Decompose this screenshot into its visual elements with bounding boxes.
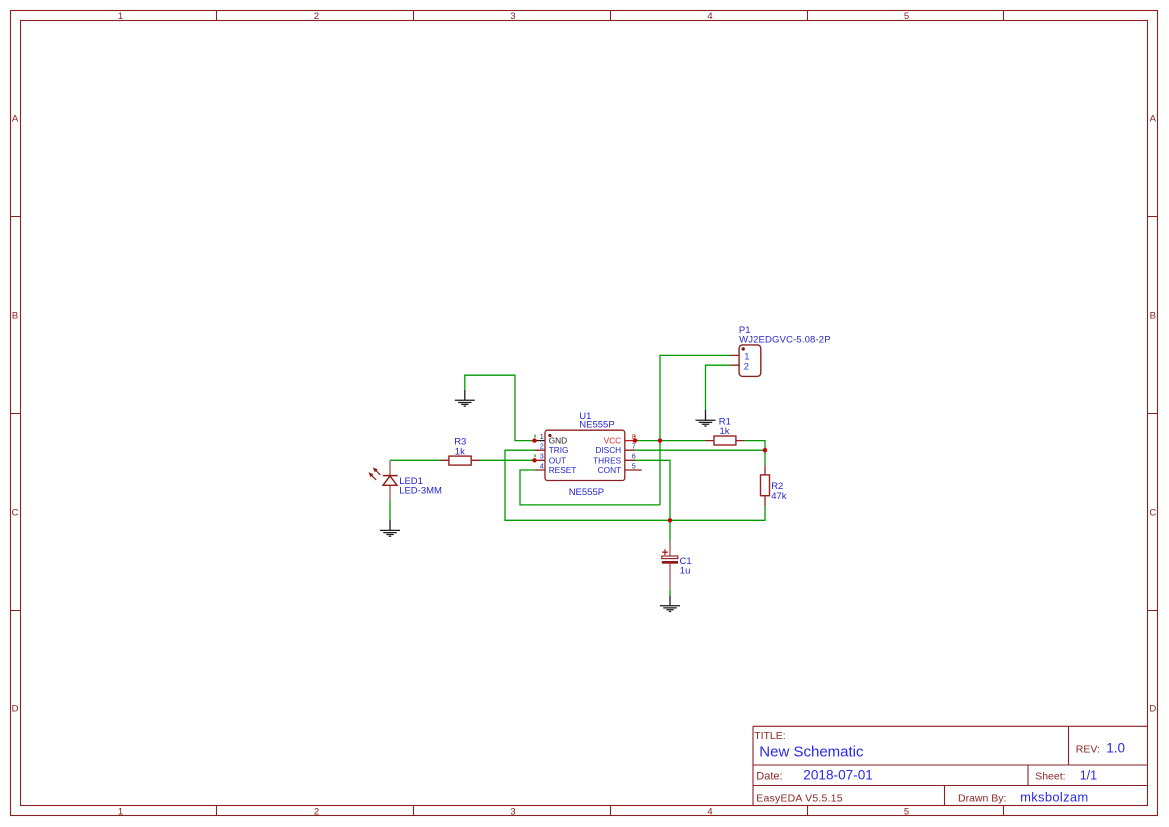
svg-text:1: 1: [118, 11, 123, 22]
svg-text:2: 2: [744, 361, 749, 372]
svg-text:7: 7: [632, 442, 636, 451]
svg-text:5: 5: [632, 461, 636, 470]
svg-text:4: 4: [540, 461, 544, 470]
svg-text:1.0: 1.0: [1106, 740, 1125, 755]
svg-text:A: A: [12, 114, 19, 125]
svg-text:1k: 1k: [720, 426, 730, 437]
svg-text:2: 2: [314, 807, 319, 818]
svg-text:Date:: Date:: [756, 770, 782, 782]
svg-text:3: 3: [510, 807, 515, 818]
svg-text:TITLE:: TITLE:: [754, 730, 786, 742]
svg-text:1: 1: [118, 807, 123, 818]
svg-text:GND: GND: [549, 436, 567, 446]
svg-text:2: 2: [540, 442, 544, 451]
svg-text:TRIG: TRIG: [549, 445, 569, 455]
svg-text:1: 1: [540, 432, 544, 441]
svg-text:3: 3: [510, 11, 515, 22]
svg-text:mksbolzam: mksbolzam: [1020, 790, 1088, 805]
svg-text:Sheet:: Sheet:: [1035, 770, 1065, 782]
svg-text:2018-07-01: 2018-07-01: [803, 767, 873, 782]
svg-text:THRES: THRES: [593, 455, 622, 465]
svg-text:RESET: RESET: [549, 465, 577, 475]
svg-text:New Schematic: New Schematic: [759, 744, 864, 761]
svg-text:VCC: VCC: [604, 436, 622, 446]
svg-text:REV:: REV:: [1076, 743, 1100, 755]
svg-text:B: B: [12, 310, 18, 321]
svg-text:Drawn By:: Drawn By:: [958, 793, 1006, 805]
svg-text:1/1: 1/1: [1080, 768, 1097, 782]
svg-text:EasyEDA V5.5.15: EasyEDA V5.5.15: [756, 793, 842, 805]
svg-text:47k: 47k: [771, 491, 787, 502]
svg-text:DISCH: DISCH: [595, 445, 621, 455]
svg-text:LED-3MM: LED-3MM: [399, 486, 442, 497]
svg-text:3: 3: [540, 452, 544, 461]
svg-text:OUT: OUT: [549, 455, 567, 465]
svg-text:4: 4: [707, 807, 712, 818]
svg-text:D: D: [12, 704, 19, 715]
svg-text:NE555P: NE555P: [579, 419, 614, 430]
svg-text:1k: 1k: [455, 447, 465, 458]
svg-text:4: 4: [707, 11, 712, 22]
svg-text:A: A: [1150, 114, 1157, 125]
svg-text:5: 5: [904, 11, 909, 22]
svg-text:6: 6: [632, 452, 636, 461]
svg-text:5: 5: [904, 807, 909, 818]
svg-text:C: C: [12, 507, 19, 518]
svg-text:B: B: [1150, 310, 1156, 321]
svg-text:1u: 1u: [680, 566, 691, 577]
svg-text:D: D: [1149, 704, 1156, 715]
svg-text:NE555P: NE555P: [569, 487, 604, 498]
svg-text:C: C: [1149, 507, 1156, 518]
svg-text:WJ2EDGVC-5.08-2P: WJ2EDGVC-5.08-2P: [739, 335, 831, 346]
svg-text:2: 2: [314, 11, 319, 22]
svg-text:CONT: CONT: [598, 465, 622, 475]
